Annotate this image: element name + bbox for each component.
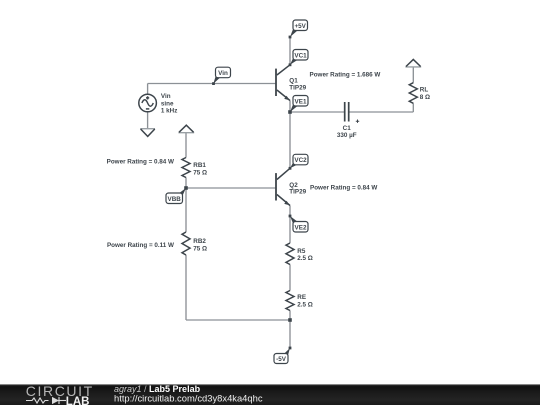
node label -5V xyxy=(274,348,290,364)
wire source bottom to ground xyxy=(147,112,149,128)
svg-text:VBB: VBB xyxy=(168,196,182,203)
svg-text:RE: RE xyxy=(297,294,306,301)
svg-text:VE1: VE1 xyxy=(295,98,307,105)
wire bottom rail xyxy=(186,319,290,321)
node junction VE1 xyxy=(288,110,292,114)
voltage source Vin xyxy=(139,94,157,112)
svg-text:1 kHz: 1 kHz xyxy=(161,107,177,114)
svg-text:75 Ω: 75 Ω xyxy=(193,169,207,176)
resistor RE xyxy=(286,291,294,311)
svg-text:RB2: RB2 xyxy=(193,238,206,245)
wire RL bottom lead xyxy=(412,103,414,112)
node label VBB xyxy=(166,188,186,204)
wire Q2 emitter to R5 xyxy=(289,206,291,244)
wire RB2 top lead xyxy=(185,188,187,232)
wire RB1 bottom lead xyxy=(185,178,187,189)
node label VE1 xyxy=(290,96,308,113)
wire C1 to RL xyxy=(349,111,413,113)
node label VC1 xyxy=(290,50,308,65)
transistor Q2 xyxy=(276,168,290,205)
svg-text:Power Rating = 0.84 W: Power Rating = 0.84 W xyxy=(107,159,174,166)
svg-text:Vin: Vin xyxy=(161,93,171,100)
node label anchors xyxy=(289,36,292,39)
node label VE2 xyxy=(290,216,308,232)
resistor RB1 xyxy=(182,158,190,178)
wire node VBB row to Q2 base xyxy=(186,187,276,189)
svg-text:Power Rating = 0.84 W: Power Rating = 0.84 W xyxy=(310,184,377,191)
svg-text:2.5 Ω: 2.5 Ω xyxy=(297,255,313,262)
svg-text:VE2: VE2 xyxy=(295,224,307,231)
svg-text:http://circuitlab.com/cd3y8x4k: http://circuitlab.com/cd3y8x4ka4qhc xyxy=(114,392,263,403)
supply arrow above RL xyxy=(405,66,421,68)
svg-text:330 µF: 330 µF xyxy=(337,132,357,139)
logo resistor-diode line xyxy=(26,397,66,404)
svg-text:Power Rating = 0.11 W: Power Rating = 0.11 W xyxy=(107,242,174,249)
svg-text:LAB: LAB xyxy=(66,396,90,405)
wire node VE1 down to Q2 collector xyxy=(289,112,291,168)
ground xyxy=(140,128,155,130)
svg-text:TIP29: TIP29 xyxy=(289,188,306,195)
resistor RL xyxy=(409,83,417,104)
svg-text:Power Rating = 1.686 W: Power Rating = 1.686 W xyxy=(310,71,381,78)
node junction VBB xyxy=(184,186,188,190)
svg-text:-5V: -5V xyxy=(276,356,287,363)
svg-text:VC1: VC1 xyxy=(294,52,307,59)
svg-text:+5V: +5V xyxy=(295,23,307,30)
svg-text:RL: RL xyxy=(420,87,429,94)
supply arrow above RB1 xyxy=(178,132,194,134)
node label +5V xyxy=(290,20,308,37)
wire node VE1 to C1 xyxy=(290,111,344,113)
wire source top xyxy=(147,84,149,95)
svg-text:sine: sine xyxy=(161,100,174,107)
svg-text:2.5 Ω: 2.5 Ω xyxy=(297,302,313,309)
wire +5V feed to Q1 collector xyxy=(289,37,291,65)
transistor Q1 xyxy=(276,65,290,101)
resistor R5 xyxy=(286,243,294,264)
wire RB2 bottom to bottom rail xyxy=(185,255,187,320)
wire RL top lead to supply arrow xyxy=(412,67,414,83)
svg-text:TIP29: TIP29 xyxy=(289,84,306,91)
wire Q1 emitter to node VE1 xyxy=(289,101,291,113)
svg-text:75 Ω: 75 Ω xyxy=(193,245,207,252)
wire RE to -5V xyxy=(289,311,291,349)
capacitor C1 xyxy=(345,102,359,123)
node junction bottom rail xyxy=(288,318,292,322)
svg-text:Vin: Vin xyxy=(218,70,228,77)
node label VC2 xyxy=(290,154,308,168)
resistor RB2 xyxy=(182,232,190,255)
wire R5 to RE xyxy=(289,265,291,291)
svg-text:8 Ω: 8 Ω xyxy=(420,94,430,101)
svg-text:VC2: VC2 xyxy=(294,157,307,164)
svg-text:RB1: RB1 xyxy=(193,162,206,169)
wire RB1 top lead to supply arrow xyxy=(185,133,187,158)
svg-text:R5: R5 xyxy=(297,248,306,255)
wire Q1 base from source xyxy=(148,83,276,85)
node label Vin xyxy=(213,67,230,84)
